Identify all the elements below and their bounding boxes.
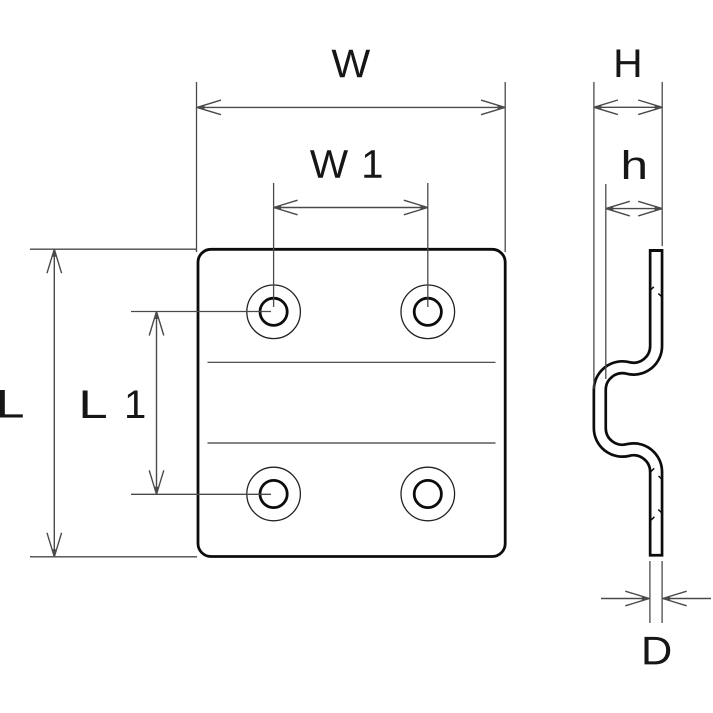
label L 1: [83, 390, 106, 418]
bend line upper: [208, 361, 496, 363]
side profile strip (S-offset plate, outer black): [600, 249, 656, 557]
extension line D right: [661, 561, 663, 623]
dimension L1 arrow: [149, 312, 164, 495]
tick marks on strip edges: [651, 287, 662, 520]
extension line H left: [593, 82, 595, 389]
extension line L1 top: [131, 311, 271, 313]
hole top-left outer circle: [247, 285, 301, 339]
dimension H arrow: [594, 100, 662, 115]
extension line L top: [30, 248, 197, 250]
extension line L1 bottom: [131, 493, 271, 495]
extension line W right: [504, 82, 506, 252]
dimension L arrow: [47, 249, 62, 557]
dimension D arrow left: [601, 591, 649, 606]
plate outline (front view): [198, 249, 505, 556]
extension line W1 left: [273, 183, 275, 307]
dimension h arrow: [606, 201, 662, 216]
extension line W1 right: [427, 183, 429, 307]
label H: [616, 50, 639, 78]
hole bottom-left inner circle: [260, 480, 287, 507]
label W: [332, 50, 370, 78]
hole bottom-right inner circle: [414, 480, 441, 507]
hole top-right inner circle: [414, 298, 441, 325]
extension line D left: [649, 561, 651, 623]
extension line W left: [196, 82, 198, 252]
dimension W1 arrow: [274, 200, 428, 215]
label h: [624, 150, 645, 179]
hole top-right outer circle: [401, 285, 455, 339]
bend line lower: [208, 442, 496, 444]
hole bottom-left outer circle: [247, 467, 301, 521]
hole bottom-right outer circle: [401, 467, 455, 521]
extension line h left: [605, 184, 607, 379]
dimension W arrow: [197, 100, 505, 115]
dimension D arrow right: [663, 591, 711, 606]
extension line H/h right: [661, 82, 663, 246]
extension line L bottom: [30, 556, 197, 558]
hole top-left inner circle: [260, 298, 287, 325]
label W 1: [310, 150, 348, 178]
side profile strip (inner white): [600, 252, 656, 554]
label D: [644, 637, 670, 665]
label L: [0, 390, 23, 418]
arrow tip wedges: [52, 105, 670, 600]
